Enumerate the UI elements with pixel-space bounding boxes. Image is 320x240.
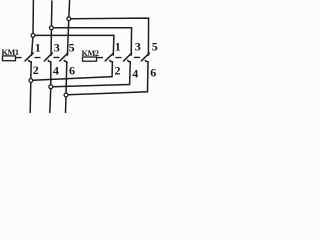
node D junction output 2 — [29, 79, 33, 83]
wire feed from node C to KM2 contact 5 — [71, 18, 149, 55]
contact KM1 pole 3-4 — [44, 53, 52, 62]
contact KM2 pole 1-2 — [105, 53, 113, 62]
svg-text:5: 5 — [69, 41, 75, 55]
svg-text:1: 1 — [35, 41, 41, 55]
node A junction L1/feed — [31, 34, 35, 38]
wire phase L1 vertical top — [32, 0, 34, 55]
node B junction L2/feed — [50, 26, 54, 30]
coil box KM1 — [3, 56, 16, 61]
svg-text:2: 2 — [115, 64, 121, 78]
coil box KM2 — [83, 57, 97, 61]
svg-text:6: 6 — [150, 66, 156, 80]
linkage dashes KM1 — [16, 56, 62, 58]
node F junction output 6 — [64, 93, 68, 97]
wire KM1 output 6 down — [66, 62, 67, 113]
node C junction L3/feed — [67, 17, 71, 21]
contact KM2 pole 3-4 — [124, 53, 132, 62]
svg-text:4: 4 — [53, 64, 59, 78]
wire KM1 output 2 down — [30, 62, 31, 113]
wire KM2 output 4 return to node E — [53, 62, 131, 87]
svg-text:1: 1 — [115, 40, 121, 54]
svg-text:3: 3 — [54, 41, 60, 55]
wire feed from node B to KM2 contact 3 — [53, 28, 131, 55]
svg-text:3: 3 — [135, 40, 141, 54]
svg-text:6: 6 — [69, 64, 75, 78]
contact KM1 pole 1-2 — [25, 53, 33, 62]
linkage dashes KM2 — [98, 56, 144, 58]
svg-text:5: 5 — [152, 40, 158, 54]
wire KM2 output 2 return to node D — [33, 62, 113, 80]
contact KM1 pole 5-6 — [60, 53, 68, 62]
node E junction output 4 — [49, 85, 53, 89]
svg-text:KM1: KM1 — [2, 48, 20, 57]
wire phase L2 vertical top — [50, 1, 53, 55]
svg-text:4: 4 — [132, 67, 138, 81]
contact KM2 pole 5-6 — [141, 53, 149, 62]
svg-text:2: 2 — [33, 63, 39, 77]
wire KM1 output 4 down — [50, 62, 51, 113]
wire KM2 output 6 return to node F — [68, 62, 148, 95]
wire feed from node A to KM2 contact 1 — [35, 35, 114, 55]
wire phase L3 vertical top — [67, 1, 69, 56]
svg-text:KM2: KM2 — [82, 49, 100, 58]
